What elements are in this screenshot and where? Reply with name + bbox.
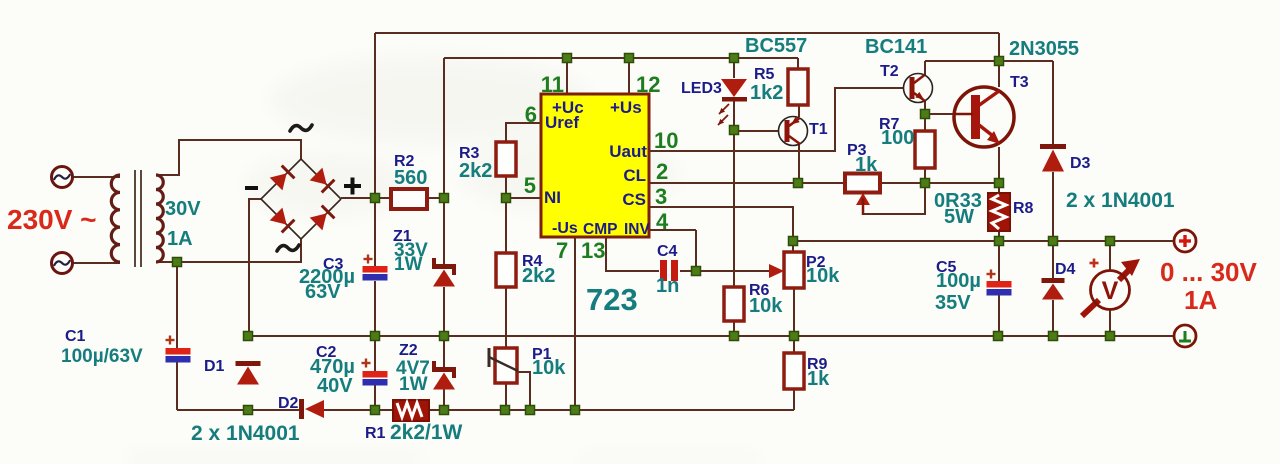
svg-text:1n: 1n <box>656 275 679 297</box>
svg-text:723: 723 <box>586 282 638 317</box>
svg-text:+Us: +Us <box>610 98 642 117</box>
svg-text:1A: 1A <box>1184 285 1217 315</box>
svg-text:2 x 1N4001: 2 x 1N4001 <box>1066 189 1175 212</box>
svg-text:T2: T2 <box>880 63 899 80</box>
svg-text:63V: 63V <box>305 281 341 303</box>
svg-text:0 ... 30V: 0 ... 30V <box>1160 257 1257 287</box>
svg-text:1A: 1A <box>167 228 193 250</box>
svg-text:1k2: 1k2 <box>750 82 783 104</box>
svg-text:-Us: -Us <box>552 220 578 237</box>
svg-text:R6: R6 <box>749 282 770 299</box>
svg-text:1W: 1W <box>399 374 428 395</box>
svg-text:R7: R7 <box>879 116 900 133</box>
svg-text:C1: C1 <box>65 328 86 345</box>
svg-text:P3: P3 <box>847 142 867 159</box>
svg-text:V: V <box>1102 277 1119 305</box>
svg-text:100µ/63V: 100µ/63V <box>61 346 143 367</box>
svg-text:C2: C2 <box>316 344 337 361</box>
svg-text:2N3055: 2N3055 <box>1009 38 1079 60</box>
svg-text:30V: 30V <box>165 198 201 220</box>
svg-text:BC141: BC141 <box>865 36 927 58</box>
svg-text:13: 13 <box>581 238 605 263</box>
svg-text:D2: D2 <box>278 395 299 412</box>
svg-text:T1: T1 <box>809 121 828 138</box>
svg-text:4: 4 <box>656 209 669 234</box>
svg-text:R4: R4 <box>522 253 543 270</box>
svg-text:Z2: Z2 <box>399 342 418 359</box>
svg-text:C5: C5 <box>936 259 957 276</box>
svg-text:2k2: 2k2 <box>459 160 492 182</box>
svg-text:R8: R8 <box>1013 200 1034 217</box>
svg-text:2: 2 <box>656 159 668 184</box>
svg-text:R3: R3 <box>459 145 480 162</box>
svg-text:7: 7 <box>556 238 568 263</box>
svg-text:C3: C3 <box>323 256 344 273</box>
svg-text:T3: T3 <box>1010 74 1029 91</box>
svg-text:CL: CL <box>623 166 646 185</box>
svg-text:35V: 35V <box>935 292 971 314</box>
svg-text:P2: P2 <box>806 254 826 271</box>
svg-text:3: 3 <box>655 184 667 209</box>
svg-text:R1: R1 <box>365 425 386 442</box>
svg-text:Uref: Uref <box>545 113 579 132</box>
svg-text:R9: R9 <box>807 356 828 373</box>
svg-text:CS: CS <box>622 190 646 209</box>
svg-text:12: 12 <box>636 72 660 97</box>
svg-text:P1: P1 <box>532 346 552 363</box>
svg-text:C4: C4 <box>657 243 678 260</box>
svg-text:6: 6 <box>525 102 537 127</box>
svg-text:560: 560 <box>394 167 427 189</box>
svg-text:INV: INV <box>624 221 651 238</box>
svg-text:5: 5 <box>524 173 536 198</box>
svg-text:1W: 1W <box>394 254 423 275</box>
svg-text:2k2/1W: 2k2/1W <box>390 421 463 444</box>
svg-text:R2: R2 <box>394 153 415 170</box>
svg-text:D1: D1 <box>204 358 225 375</box>
svg-text:230V ~: 230V ~ <box>7 204 97 235</box>
svg-text:10: 10 <box>654 128 678 153</box>
svg-text:5W: 5W <box>944 206 974 228</box>
svg-text:D3: D3 <box>1070 155 1091 172</box>
svg-text:Uaut: Uaut <box>609 142 647 161</box>
svg-text:R5: R5 <box>754 66 775 83</box>
svg-text:LED3: LED3 <box>681 80 722 97</box>
svg-text:40V: 40V <box>317 375 353 397</box>
svg-text:Z1: Z1 <box>393 228 412 245</box>
svg-text:2 x 1N4001: 2 x 1N4001 <box>191 422 300 445</box>
svg-text:NI: NI <box>544 188 561 207</box>
svg-text:BC557: BC557 <box>745 35 807 57</box>
svg-text:D4: D4 <box>1055 261 1076 278</box>
svg-text:CMP: CMP <box>583 221 617 238</box>
svg-text:11: 11 <box>541 72 564 97</box>
